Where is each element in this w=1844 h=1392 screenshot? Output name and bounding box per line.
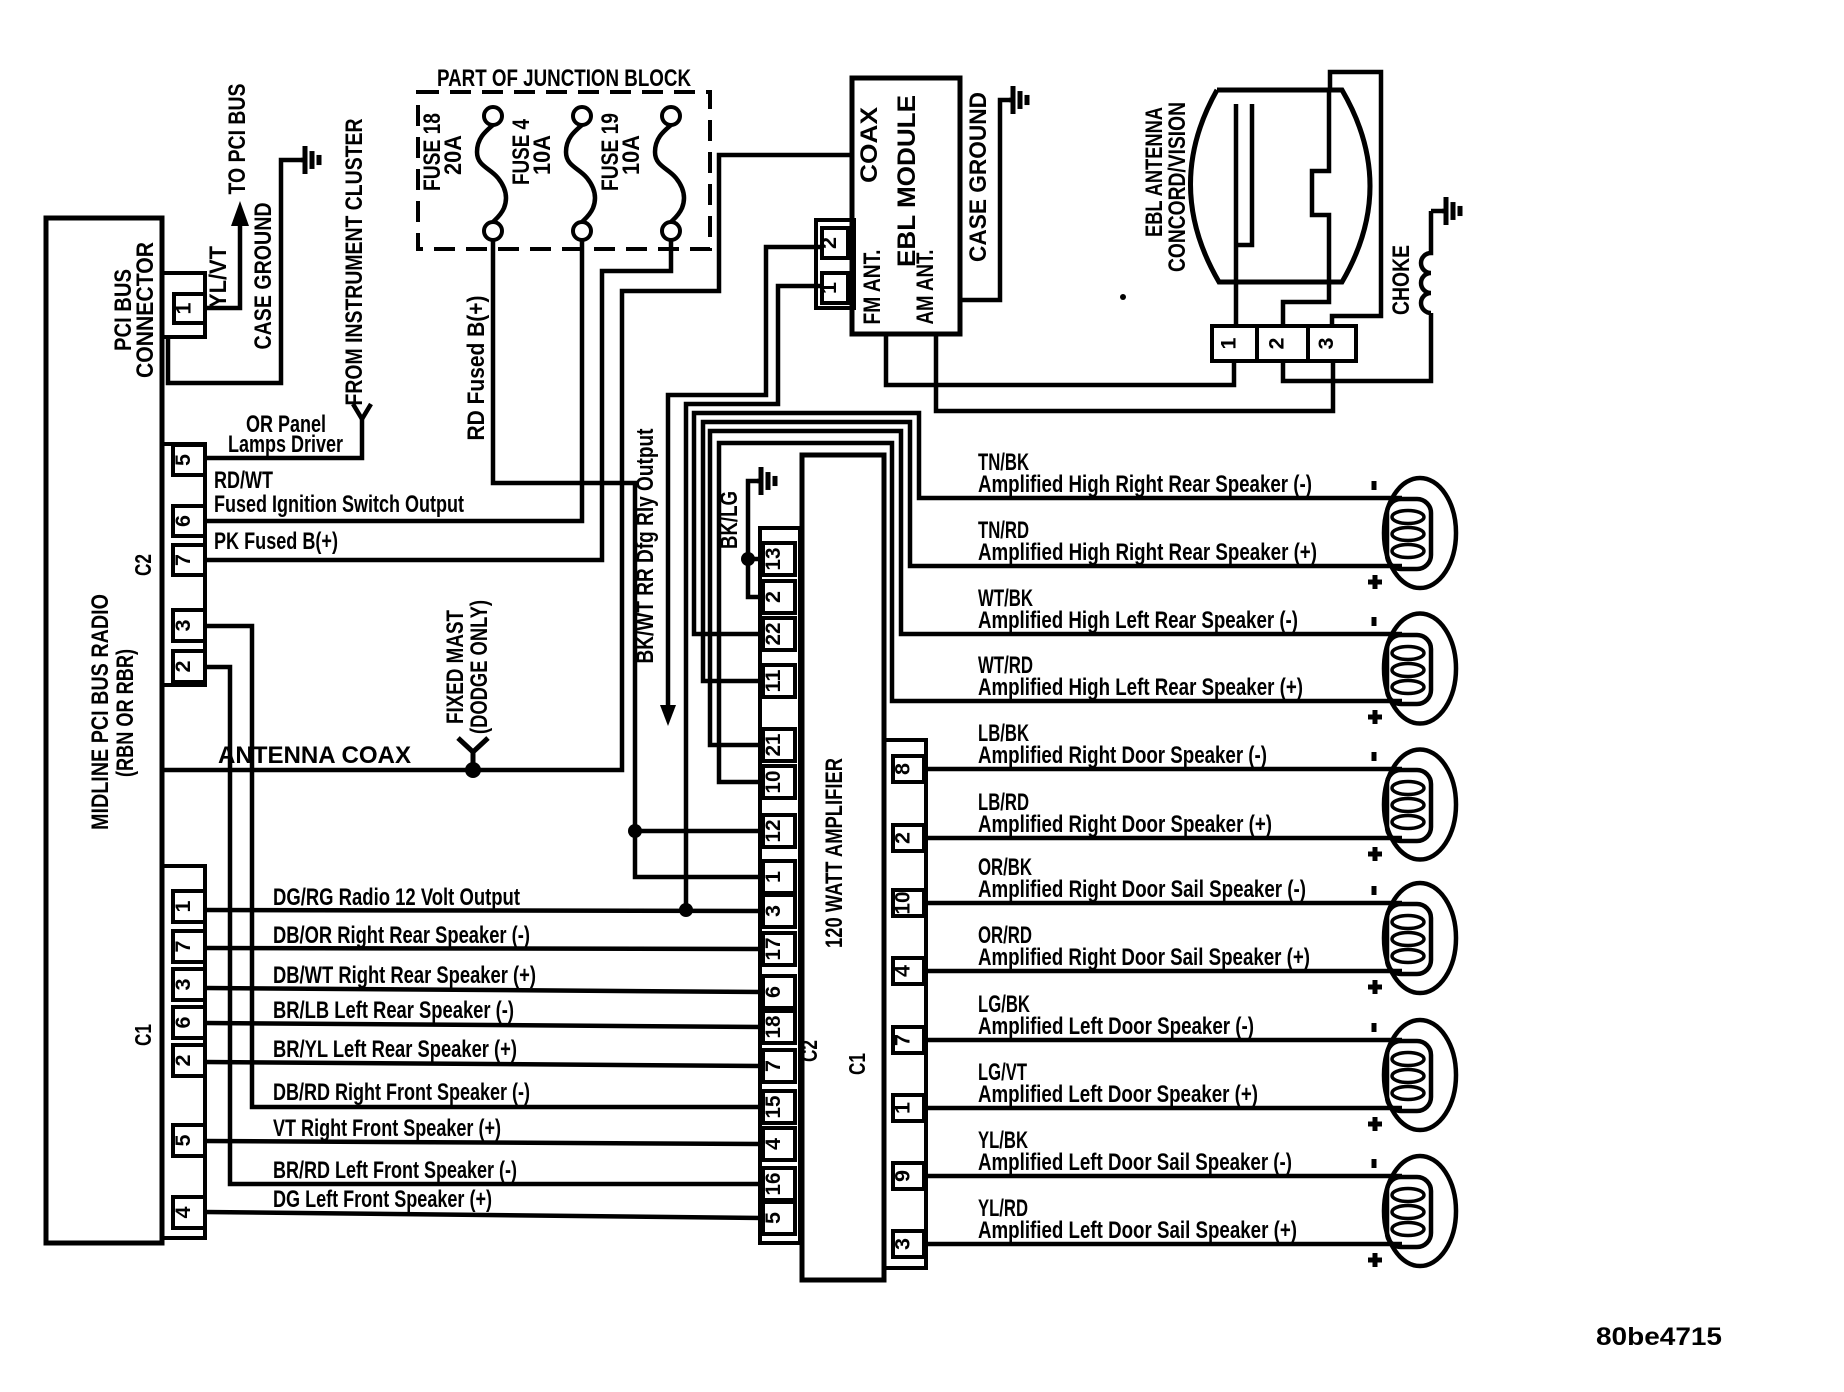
svg-text:7: 7 — [172, 941, 195, 953]
wire DB/OR — [205, 948, 762, 949]
wire choke to ground — [1431, 209, 1444, 214]
amplifier 120 WATT AMPLIFIER — [802, 455, 884, 1280]
pin 2 amplifier C1 — [893, 825, 924, 851]
svg-text:2: 2 — [892, 832, 915, 844]
svg-text:PART OF JUNCTION BLOCK: PART OF JUNCTION BLOCK — [437, 65, 692, 92]
wire WT/BK amplified rear speaker feed — [710, 431, 1402, 745]
polarity minus speaker 2 — [1372, 617, 1377, 626]
pin 2 radio C1 — [173, 1045, 205, 1076]
antenna EBL ANTENNA CONCORD/VISION glass — [1190, 90, 1370, 282]
wire WT/RD amplified rear speaker feed — [719, 443, 1402, 782]
svg-text:BK/WT RR Dfg Rly Output: BK/WT RR Dfg Rly Output — [632, 429, 659, 664]
svg-text:16: 16 — [762, 1173, 785, 1196]
svg-text:CONNECTOR: CONNECTOR — [132, 242, 159, 378]
pin 8 amplifier C1 — [893, 756, 924, 782]
wire radio case ground — [168, 160, 303, 383]
svg-text:DB/OR Right Rear Speaker (-): DB/OR Right Rear Speaker (-) — [273, 922, 530, 949]
wire BK/WT RR Dfg Rly Output from FM/AM connector pin 2 — [668, 247, 821, 712]
svg-text:3: 3 — [892, 1238, 915, 1250]
fuse FUSE 18 20A — [484, 107, 502, 125]
speaker 5 — [1384, 1020, 1456, 1130]
svg-text:CASE GROUND: CASE GROUND — [250, 203, 277, 350]
svg-text:Amplified Right Door Sail Spea: Amplified Right Door Sail Speaker (-) — [978, 876, 1306, 903]
wire LB/BK speaker feed — [924, 767, 1402, 772]
node antenna junction fixed mast — [465, 762, 481, 778]
connector FM/AM antenna leads body — [816, 220, 854, 308]
svg-text:80be4715: 80be4715 — [1596, 1323, 1722, 1351]
connector EBL antenna pin 1 — [1212, 326, 1257, 361]
wire RD/WT Fused Ignition Switch Output from fuse 4 to radio pin 6 — [205, 240, 582, 521]
svg-text:4: 4 — [762, 1138, 785, 1150]
pin 6 radio C2 — [173, 506, 205, 536]
svg-text:DG Left Front Speaker (+): DG Left Front Speaker (+) — [273, 1186, 492, 1213]
polarity plus speaker 3 — [1368, 852, 1382, 857]
junction block dashed box PART OF JUNCTION BLOCK — [418, 92, 710, 249]
svg-text:C1: C1 — [130, 1024, 156, 1046]
pin 2 radio C2 — [173, 651, 205, 682]
svg-text:Amplified Left Door Sail Speak: Amplified Left Door Sail Speaker (+) — [978, 1217, 1297, 1244]
wire BR/LB — [205, 1023, 762, 1027]
svg-text:22: 22 — [762, 623, 785, 646]
svg-text:FIXED MAST: FIXED MAST — [442, 610, 469, 724]
wire EBL module case ground — [960, 100, 1011, 300]
wire LB/RD speaker feed — [924, 836, 1402, 841]
wire speck artifact — [1120, 294, 1126, 300]
antenna grid element U — [1234, 104, 1239, 326]
svg-text:Amplified Left Door Speaker (+: Amplified Left Door Speaker (+) — [978, 1081, 1258, 1108]
wire PK Fused B(+) from fuse 19 to radio pin 7 — [205, 240, 671, 560]
wire ANTENNA COAX from radio to EBL module — [162, 155, 852, 770]
svg-text:7: 7 — [172, 554, 195, 566]
polarity minus speaker 6 — [1372, 1159, 1377, 1168]
svg-text:Lamps Driver: Lamps Driver — [228, 431, 343, 458]
node BK/LG junction — [741, 552, 755, 566]
svg-text:3: 3 — [1315, 338, 1338, 350]
connector C1 radio body — [162, 866, 205, 1238]
wire OR/BK speaker feed — [924, 901, 1402, 906]
svg-text:10A: 10A — [529, 135, 556, 175]
svg-text:1: 1 — [173, 302, 196, 314]
svg-text:5: 5 — [762, 1212, 785, 1224]
pin 7 amplifier C2 — [763, 1050, 795, 1082]
svg-text:(DODGE ONLY): (DODGE ONLY) — [466, 600, 493, 734]
wire LG/BK speaker feed — [924, 1038, 1402, 1043]
pin 5 radio C2 — [173, 445, 205, 475]
svg-text:(RBN OR RBR): (RBN OR RBR) — [112, 649, 139, 777]
fuse FUSE 19 10A — [662, 107, 680, 125]
speaker 4 — [1384, 883, 1456, 993]
wire BR/YL — [205, 1062, 762, 1066]
wire EBL antenna pin 2 to choke — [1283, 313, 1431, 381]
speaker 1 — [1384, 478, 1456, 588]
arrow TO PCI BUS — [231, 201, 249, 226]
wire YL/VT to PCI bus — [205, 225, 240, 308]
polarity plus speaker 6 — [1368, 1258, 1382, 1263]
svg-text:8: 8 — [892, 763, 915, 775]
svg-text:1: 1 — [818, 282, 841, 294]
svg-text:6: 6 — [172, 1017, 195, 1029]
svg-text:C2: C2 — [130, 554, 156, 576]
pin 1 amplifier C2 — [763, 861, 795, 893]
svg-text:Amplified High Left Rear Speak: Amplified High Left Rear Speaker (+) — [978, 674, 1303, 701]
svg-text:COAX: COAX — [856, 107, 883, 183]
svg-text:6: 6 — [762, 986, 785, 998]
speaker 3 — [1384, 750, 1456, 860]
antenna fixed mast symbol — [458, 738, 488, 752]
wire DG Left Front Speaker (+) — [205, 1212, 762, 1218]
pin 7 amplifier C1 — [893, 1027, 924, 1053]
svg-text:PK Fused B(+): PK Fused B(+) — [214, 528, 338, 555]
svg-text:Fused Ignition Switch Output: Fused Ignition Switch Output — [214, 491, 464, 518]
pin 5 radio C1 — [173, 1125, 205, 1156]
svg-text:21: 21 — [762, 733, 785, 756]
pin 9 amplifier C1 — [893, 1163, 924, 1189]
svg-text:4: 4 — [892, 965, 915, 977]
pin 3 radio C1 — [173, 969, 205, 1000]
svg-text:TO PCI BUS: TO PCI BUS — [224, 84, 251, 195]
svg-text:5: 5 — [172, 454, 195, 466]
svg-text:DB/WT Right Rear Speaker (+): DB/WT Right Rear Speaker (+) — [273, 962, 536, 989]
svg-text:5: 5 — [172, 1134, 195, 1146]
svg-text:3: 3 — [172, 620, 195, 632]
svg-text:11: 11 — [762, 669, 785, 692]
wire OR Panel Lamps Driver from instrument cluster — [205, 419, 362, 458]
svg-text:Amplified Right Door Speaker (: Amplified Right Door Speaker (-) — [978, 742, 1267, 769]
svg-text:EBL MODULE: EBL MODULE — [893, 95, 921, 267]
pin 5 amplifier C2 — [763, 1202, 795, 1234]
connector C2 radio body — [162, 444, 205, 685]
pin 10 amplifier C2 — [763, 766, 795, 798]
ground BK/LG — [757, 479, 761, 484]
pin 6 radio C1 — [173, 1007, 205, 1038]
svg-text:10: 10 — [892, 892, 915, 915]
svg-text:120 WATT AMPLIFIER: 120 WATT AMPLIFIER — [821, 758, 848, 948]
polarity plus speaker 1 — [1368, 580, 1382, 585]
pin 7 radio C2 — [173, 545, 205, 575]
wire BR/RD Left Front Speaker (-) from radio C2 pin 2 to amp pin 16 — [205, 667, 762, 1184]
pin 4 amplifier C1 — [893, 958, 924, 984]
pin 21 amplifier C2 — [763, 729, 795, 761]
pin 1 amplifier C1 — [893, 1095, 924, 1121]
pin 4 radio C1 — [173, 1197, 205, 1228]
pin 3 amplifier C2 — [763, 895, 795, 927]
svg-text:4: 4 — [172, 1206, 195, 1218]
polarity plus speaker 5 — [1368, 1122, 1382, 1127]
speaker 6 — [1384, 1156, 1456, 1266]
svg-text:Amplified Left Door Speaker (-: Amplified Left Door Speaker (-) — [978, 1013, 1254, 1040]
svg-text:2: 2 — [1266, 338, 1289, 350]
arrow BK/WT RR Dfg Rly Output — [660, 705, 676, 726]
svg-text:DG/RG Radio 12 Volt Output: DG/RG Radio 12 Volt Output — [273, 884, 520, 911]
svg-text:BR/YL Left Rear Speaker (+): BR/YL Left Rear Speaker (+) — [273, 1036, 517, 1063]
pin 3 amplifier C1 — [893, 1231, 924, 1257]
wire AM ANT to EBL antenna pin 3 — [936, 334, 1333, 411]
fuse FUSE 4 10A — [573, 107, 591, 125]
svg-text:13: 13 — [762, 548, 785, 571]
svg-text:10A: 10A — [618, 135, 645, 175]
svg-text:RD/WT: RD/WT — [214, 467, 273, 494]
connector EBL antenna pin 2 — [1257, 326, 1308, 361]
wire TN/BK amplified rear speaker feed — [694, 413, 1402, 634]
svg-text:2: 2 — [762, 591, 785, 603]
svg-text:FM ANT.: FM ANT. — [859, 250, 886, 325]
pin 17 amplifier C2 — [763, 933, 795, 965]
ground radio case — [301, 158, 305, 163]
svg-text:2: 2 — [172, 661, 195, 673]
svg-text:15: 15 — [762, 1095, 785, 1118]
connector C1 amplifier body — [884, 740, 926, 1268]
wire FM ANT to EBL antenna pin 1 — [886, 334, 1234, 385]
svg-text:Amplified Left Door Sail Speak: Amplified Left Door Sail Speaker (-) — [978, 1149, 1292, 1176]
pin 1 FM/AM connector — [822, 273, 848, 303]
node junction RD Fused B(+) — [628, 824, 642, 838]
svg-text:7: 7 — [762, 1060, 785, 1072]
pin 12 amplifier C2 — [763, 815, 795, 847]
svg-text:Amplified High Right Rear Spea: Amplified High Right Rear Speaker (-) — [978, 471, 1312, 498]
radio unit MIDLINE PCI BUS RADIO (RBN OR RBR) — [46, 218, 162, 1243]
speaker 2 — [1384, 614, 1456, 724]
inductor CHOKE — [1421, 211, 1431, 313]
connector EBL antenna pin 3 — [1308, 326, 1356, 361]
polarity minus speaker 5 — [1372, 1023, 1377, 1032]
pin 2 amplifier C2 — [763, 581, 795, 613]
connector PCI BUS CONNECTOR body — [162, 273, 205, 337]
svg-text:Amplified Right Door Sail Spea: Amplified Right Door Sail Speaker (+) — [978, 944, 1310, 971]
pin 16 amplifier C2 — [763, 1168, 795, 1200]
arrow from instrument cluster — [353, 404, 371, 419]
pin 18 amplifier C2 — [763, 1011, 795, 1043]
polarity plus speaker 2 — [1368, 715, 1382, 720]
svg-text:18: 18 — [762, 1015, 785, 1038]
connector C2 amplifier body — [760, 528, 800, 1243]
pin 4 amplifier C2 — [763, 1128, 795, 1160]
wire YL/RD speaker feed — [924, 1242, 1402, 1247]
wire YL/BK speaker feed — [924, 1174, 1402, 1179]
svg-text:20A: 20A — [440, 135, 467, 175]
pin 11 amplifier C2 — [763, 665, 795, 697]
pin 13 amplifier C2 — [763, 543, 795, 575]
pin 1 radio C1 — [173, 891, 205, 922]
svg-text:CHOKE: CHOKE — [1388, 245, 1415, 315]
svg-text:1: 1 — [1218, 337, 1241, 349]
wire LG/VT speaker feed — [924, 1106, 1402, 1111]
pin 7 radio C1 — [173, 931, 205, 962]
wire DB/RD Right Front Speaker (-) from radio C2 pin 3 to amp pin 15 — [205, 626, 762, 1107]
pin 22 amplifier C2 — [763, 618, 795, 650]
svg-text:Amplified High Left Rear Speak: Amplified High Left Rear Speaker (-) — [978, 607, 1298, 634]
svg-text:Amplified Right Door Speaker (: Amplified Right Door Speaker (+) — [978, 811, 1272, 838]
wire OR/RD speaker feed — [924, 969, 1402, 974]
wire DG/RG riser to FM/AM connector pin 1 — [686, 286, 821, 910]
svg-text:2: 2 — [172, 1055, 195, 1067]
svg-text:6: 6 — [172, 515, 195, 527]
svg-text:7: 7 — [892, 1034, 915, 1046]
svg-text:AM ANT.: AM ANT. — [912, 250, 939, 325]
wire DB/WT — [205, 988, 762, 992]
wire defogger grid top loop to pin 3 — [1330, 72, 1381, 326]
svg-text:BR/RD Left Front Speaker (-): BR/RD Left Front Speaker (-) — [273, 1157, 517, 1184]
svg-text:MIDLINE PCI BUS RADIO: MIDLINE PCI BUS RADIO — [87, 594, 114, 830]
svg-text:RD Fused B(+): RD Fused B(+) — [463, 296, 490, 441]
svg-text:CASE GROUND: CASE GROUND — [965, 92, 992, 262]
svg-text:1: 1 — [172, 900, 195, 912]
svg-text:12: 12 — [762, 820, 785, 843]
svg-text:ANTENNA COAX: ANTENNA COAX — [218, 742, 411, 769]
svg-text:FROM INSTRUMENT CLUSTER: FROM INSTRUMENT CLUSTER — [341, 119, 368, 406]
svg-text:1: 1 — [892, 1102, 915, 1114]
ground choke — [1442, 209, 1446, 214]
wire TN/RD amplified rear speaker feed — [703, 422, 1402, 681]
svg-text:3: 3 — [172, 979, 195, 991]
pin 1 PCI BUS CONNECTOR — [174, 294, 205, 323]
svg-text:10: 10 — [762, 771, 785, 794]
wire DG/RG — [205, 910, 762, 911]
module EBL MODULE — [852, 78, 960, 334]
svg-text:YL/VT: YL/VT — [205, 246, 232, 308]
pin 10 amplifier C1 — [893, 890, 924, 916]
ground EBL module case — [1009, 98, 1013, 103]
svg-text:2: 2 — [818, 237, 841, 249]
pin 3 radio C2 — [173, 610, 205, 641]
pin 2 FM/AM connector — [822, 228, 848, 258]
wire BK/LG ground for amp pins 13 and 2 — [748, 481, 762, 597]
svg-text:17: 17 — [762, 938, 785, 961]
pin 6 amplifier C2 — [763, 976, 795, 1008]
svg-text:9: 9 — [892, 1170, 915, 1182]
wire defogger grid bottom to pin 2 — [1283, 282, 1329, 326]
wire branch to amp pin 12 — [635, 829, 762, 834]
svg-text:3: 3 — [762, 905, 785, 917]
wire VT Right Front Speaker (+) — [205, 1141, 762, 1144]
svg-text:BR/LB Left Rear Speaker (-): BR/LB Left Rear Speaker (-) — [273, 997, 514, 1024]
polarity plus speaker 4 — [1368, 985, 1382, 990]
svg-text:DB/RD Right Front Speaker (-): DB/RD Right Front Speaker (-) — [273, 1079, 530, 1106]
node DG/RG junction — [679, 903, 693, 917]
polarity minus speaker 1 — [1372, 481, 1377, 490]
svg-text:C1: C1 — [844, 1053, 870, 1075]
polarity minus speaker 3 — [1372, 752, 1377, 761]
svg-text:CONCORD/VISION: CONCORD/VISION — [1164, 102, 1191, 272]
svg-text:VT Right Front Speaker (+): VT Right Front Speaker (+) — [273, 1115, 501, 1142]
antenna defogger grid element — [1312, 90, 1329, 282]
wire RD Fused B(+) from fuse 18 to amplifier pins 12 and 1 — [493, 240, 762, 877]
pin 15 amplifier C2 — [763, 1091, 795, 1123]
svg-text:1: 1 — [762, 871, 785, 883]
svg-text:Amplified High Right Rear Spea: Amplified High Right Rear Speaker (+) — [978, 539, 1317, 566]
polarity minus speaker 4 — [1372, 886, 1377, 895]
